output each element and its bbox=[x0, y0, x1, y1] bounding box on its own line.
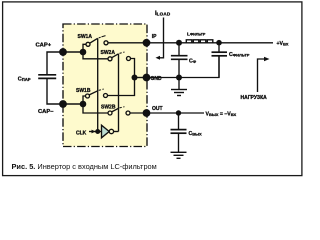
wire CAP- pin to junction bbox=[63, 103, 83, 105]
ground symbol (input filter) bbox=[171, 90, 187, 96]
pin CAP+ bbox=[59, 48, 67, 56]
svg-text:CLK: CLK bbox=[76, 131, 87, 137]
svg-text:CПАР: CПАР bbox=[18, 77, 31, 83]
switch SW2A bbox=[101, 50, 131, 61]
svg-text:SW1A: SW1A bbox=[78, 34, 93, 40]
svg-text:SW2B: SW2B bbox=[101, 105, 116, 111]
svg-text:SW1B: SW1B bbox=[76, 88, 91, 94]
svg-text:VВЫХ = –VВХ: VВЫХ = –VВХ bbox=[206, 112, 237, 118]
wire junction down to SW2B left contact bbox=[83, 104, 108, 113]
svg-text:CФИЛЬТР: CФИЛЬТР bbox=[229, 52, 250, 58]
svg-text:CВЫХ: CВЫХ bbox=[189, 131, 203, 137]
switch SW1A bbox=[78, 34, 109, 46]
svg-text:CAP+: CAP+ bbox=[36, 43, 52, 49]
control line B (inverted phase) bbox=[118, 54, 120, 132]
node ground rail junction bbox=[176, 75, 182, 81]
IC U1 (switched-capacitor inverter block) bbox=[63, 24, 147, 147]
switch SW2B bbox=[101, 105, 130, 115]
inverter U2 (clock buffer) bbox=[102, 125, 110, 138]
wire junction up to SW1B left contact bbox=[83, 96, 85, 104]
inductor Lфильтр bbox=[186, 40, 213, 43]
wire SW2B right contact to OUT pin bbox=[130, 112, 147, 114]
wire CLK to inverter bbox=[89, 131, 101, 133]
wire SW2A right contact to GND rail bbox=[131, 59, 135, 78]
capacitor Спар bbox=[38, 75, 56, 79]
svg-text:ILOAD: ILOAD bbox=[155, 11, 171, 17]
wire Спар to CAP- pin bbox=[47, 78, 63, 104]
node CAP+ junction bbox=[80, 49, 87, 56]
switch SW1B bbox=[76, 88, 108, 98]
node CAP- junction bbox=[80, 101, 87, 108]
capacitor Сф bbox=[178, 43, 180, 56]
pin CAP- bbox=[59, 100, 67, 108]
svg-text:НАГРУЗКА: НАГРУЗКА bbox=[241, 95, 268, 101]
wire junction up to SW1A left contact bbox=[83, 44, 86, 52]
node Сф top junction bbox=[176, 40, 182, 46]
pin GND bbox=[143, 74, 151, 82]
node CLK junction bbox=[95, 129, 100, 134]
border frame bbox=[3, 2, 302, 176]
wire top rail IP to +Vвх bbox=[147, 42, 274, 44]
capacitor Свых bbox=[178, 113, 180, 130]
node Сфильтр top junction bbox=[216, 40, 222, 46]
svg-text:CФ: CФ bbox=[189, 59, 197, 65]
wire junction to GND pin bbox=[135, 77, 147, 79]
node Свых junction bbox=[176, 110, 181, 115]
svg-text:+VВХ: +VВХ bbox=[277, 41, 289, 47]
svg-text:SW2A: SW2A bbox=[101, 50, 116, 56]
node GND internal junction bbox=[132, 75, 138, 81]
wire SW1B right contact to GND node bbox=[108, 78, 135, 96]
svg-text:LФИЛЬТР: LФИЛЬТР bbox=[187, 31, 206, 37]
capacitor Сфильтр bbox=[218, 43, 220, 53]
pin OUT bbox=[143, 109, 151, 117]
svg-text:GND: GND bbox=[151, 76, 163, 82]
wire junction down to SW2A left contact bbox=[83, 52, 108, 59]
pin IP bbox=[143, 39, 151, 47]
svg-text:CAP–: CAP– bbox=[38, 109, 54, 115]
wire ground rail bbox=[147, 56, 220, 78]
ground symbol (output) bbox=[171, 152, 187, 158]
node НАГРУЗКА tap bbox=[258, 59, 266, 92]
wire CAP+ pin to Спар loop bbox=[47, 52, 63, 75]
control line A (CLK phase) bbox=[97, 38, 99, 131]
wire inverter output to control line B bbox=[114, 131, 119, 133]
wire SW1A right contact to IP bbox=[108, 42, 147, 44]
svg-text:IP: IP bbox=[152, 34, 157, 40]
svg-text:OUT: OUT bbox=[152, 106, 163, 112]
wire stub to ground bbox=[178, 78, 180, 90]
wire OUT row bbox=[147, 112, 205, 114]
svg-text:Рис. 5. Инвертор с входным LC-: Рис. 5. Инвертор с входным LC-фильтром bbox=[12, 162, 157, 171]
wire CAP+ pin to junction bbox=[63, 51, 83, 53]
